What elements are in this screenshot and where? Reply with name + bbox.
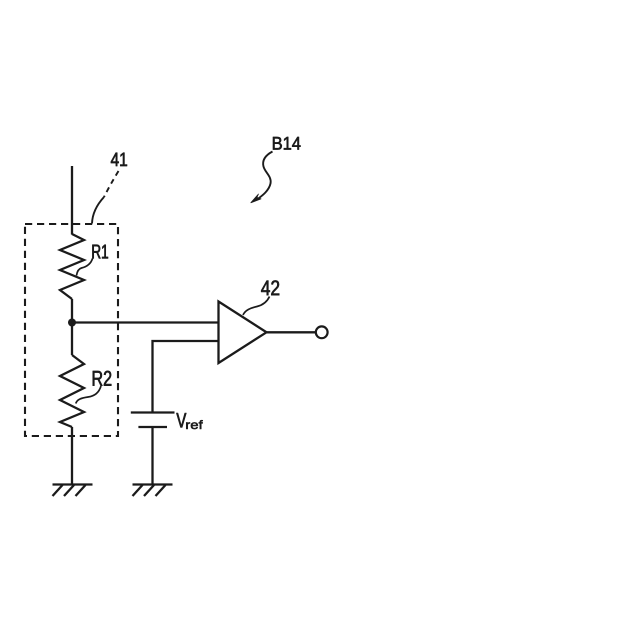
wire: op-amp minus input from Vref bbox=[153, 341, 220, 413]
resistor R2 bbox=[60, 355, 84, 427]
label B14 bbox=[273, 137, 301, 150]
wire: top supply lead into divider bbox=[71, 166, 73, 235]
label 42 bbox=[261, 280, 279, 295]
node: divider tap junction dot bbox=[68, 319, 76, 327]
leader from label 42 to op-amp bbox=[243, 297, 270, 316]
battery Vref (cell plates) bbox=[131, 413, 175, 428]
ground (right, below Vref) bbox=[133, 485, 173, 497]
leader from label R1 to resistor bbox=[77, 259, 93, 276]
label R2 bbox=[93, 371, 112, 386]
op-amp 42 (comparator triangle) bbox=[219, 302, 267, 364]
dashed box (voltage divider block 41) bbox=[25, 224, 118, 436]
label Vref bbox=[176, 413, 186, 427]
arrowhead of B14 arrow bbox=[251, 194, 261, 203]
resistor R1 bbox=[60, 234, 84, 299]
label R1 bbox=[92, 245, 108, 259]
wire: op-amp output bbox=[267, 331, 316, 333]
wire: node to op-amp + input bbox=[72, 321, 219, 323]
wire: R2 bottom to ground bbox=[71, 427, 73, 485]
label 41 bbox=[111, 153, 127, 166]
leader from label 41 (dashed part) bbox=[104, 171, 119, 197]
wire: battery to ground bbox=[151, 427, 153, 485]
leader from label 41 (solid tail to box) bbox=[92, 197, 104, 224]
output terminal circle bbox=[316, 326, 328, 338]
leader from label R2 to resistor bbox=[76, 386, 101, 404]
arrow from B14 (squiggly shaft) bbox=[257, 152, 272, 200]
wire: R1 bottom to R2 top through tap node bbox=[71, 299, 73, 355]
ground (left, below R2) bbox=[53, 485, 93, 497]
